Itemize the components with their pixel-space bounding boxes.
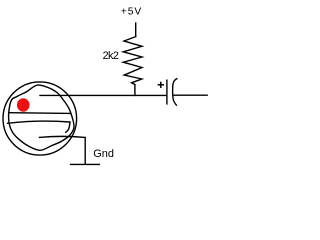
svg-text:2k2: 2k2 (103, 50, 119, 62)
plus sign of polarized capacitor (158, 82, 164, 88)
resistor R1 2k2 zigzag body (123, 37, 142, 85)
microphone MIC1 outer case circle (3, 82, 77, 155)
microphone bottom plate (backplate) with end tail (8, 121, 70, 132)
capacitor C1 curved negative plate (173, 79, 177, 105)
svg-text:Gnd: Gnd (93, 148, 114, 160)
wire: main horizontal net from mic output to capacitor (40, 94, 166, 96)
microphone MIC1 inner circle (9, 85, 74, 150)
wire: mic lower lead to ground, right then down (39, 136, 85, 164)
svg-text:+5V: +5V (121, 7, 143, 18)
wire: capacitor output to the right (174, 94, 208, 96)
microphone top plate (diaphragm) (9, 112, 71, 115)
capacitor C1 positive flat plate (166, 80, 168, 104)
wire: +5V supply lead down to resistor (135, 23, 137, 37)
wire: resistor bottom lead to node (134, 85, 136, 96)
red dot marker inside microphone (17, 98, 30, 111)
ground bar (71, 163, 100, 165)
